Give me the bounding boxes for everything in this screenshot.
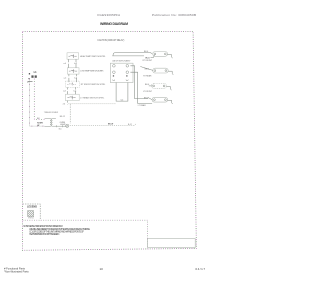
revision block at bottom right [148,239,196,248]
svg-text:HIGH TEMP SWITCH-WTRL: HIGH TEMP SWITCH-WTRL [80,56,106,58]
element E2 terminals and leads [140,67,173,75]
svg-text:BK-W: BK-W [108,123,113,125]
footer date [195,267,205,271]
svg-text:04/17: 04/17 [195,267,205,271]
label BK-6 at E1 [144,51,148,53]
connector labels a-4 b between switches [63,63,77,106]
header publication number label [152,13,196,17]
svg-text:RT FRONT SWITCH WTRL: RT FRONT SWITCH WTRL [81,84,106,86]
header model number label [98,13,121,17]
label S1 HIGH TEMP SWITCH-WTRL [80,56,106,58]
labels at E4 [138,98,149,108]
svg-text:b-4: b-4 [74,91,77,93]
svg-text:WIRING DIAGRAM: WIRING DIAGRAM [100,22,128,26]
svg-text:TRANSFORMER: TRANSFORMER [44,111,59,114]
wire label BK-12 [60,116,65,118]
legend title [27,206,37,209]
footer page number [100,267,104,271]
svg-text:BK-12: BK-12 [60,116,65,118]
element E4 terminals and leads [148,98,173,105]
legend box [23,204,41,220]
legend hatched swatch [28,211,34,217]
label S3 RT FRONT SWITCH WTRL [81,84,106,86]
wire label B-6 under transformer lead [59,128,62,130]
wire from bus down to oven light circuit [69,104,71,124]
wire dashed bus from S4 to latch block [68,103,116,105]
caution note label [97,39,124,42]
svg-text:*Non-Illustrated Parts: *Non-Illustrated Parts [4,270,29,274]
element E1 terminals and leads [151,53,173,58]
transformer T1 label [44,111,59,114]
footer functional parts note [4,266,29,273]
legend swatch caption [28,217,35,219]
latch switch assembly terminals [113,65,129,81]
vertical dashed divider to revision box [147,239,149,249]
oven light LP1 symbol [66,124,69,127]
latch terminal pins [113,75,128,76]
element E4 lt rear surface element [152,97,168,102]
latch switch assembly block [110,63,133,82]
svg-text:a-4: a-4 [64,77,67,79]
switch S2 (low temp switch) [67,68,79,74]
svg-text:CAUTION (CIRCUIT RELAY): CAUTION (CIRCUIT RELAY) [97,39,124,42]
svg-text:B-12: B-12 [128,124,132,126]
stub a below connector P1 [28,81,33,82]
dashed separator line above notes [23,220,148,238]
wire BK-12 dashed run to the right [70,123,136,125]
label S2 LOW TEMP SWITCH (SURF) [80,70,103,72]
svg-text:W-12: W-12 [145,57,149,59]
svg-text:10: 10 [100,267,104,271]
wire label at hook end [128,124,132,126]
svg-text:N BR: N BR [37,122,43,124]
element E1 rt front surface element [153,52,168,57]
element E3 lt front surface element (dashed) [151,84,166,89]
svg-text:b-4: b-4 [74,63,77,65]
wire lower run to element E1 bottom terminal [112,55,144,57]
wire box column right leg with connectors [75,59,76,94]
svg-text:RT FRONT: RT FRONT [143,60,153,62]
svg-text:Publication No: 30804050B: Publication No: 30804050B [152,13,196,17]
svg-text:LT FRONT: LT FRONT [143,91,153,93]
svg-text:BR-6: BR-6 [144,98,148,100]
svg-text:B-6: B-6 [59,128,62,130]
wire N down to transformer bottom [29,79,44,127]
label S4 LT REAR SWITCH WTRL [80,96,105,99]
labels at E2 [143,68,152,77]
svg-text:b-4: b-4 [74,77,77,79]
svg-text:BK-6: BK-6 [145,84,149,86]
svg-text:LT REAR SWITCH WTRL: LT REAR SWITCH WTRL [80,96,105,99]
svg-text:BK-6: BK-6 [145,68,149,70]
wire label BK W over dashed run [108,123,113,125]
svg-text:LT REAR: LT REAR [138,104,146,107]
wire label N BR [37,122,43,124]
switch S3 (rt front switch, dashed) [65,81,79,87]
wire L1 BK down to transformer top [34,79,44,120]
title WIRING DIAGRAM [100,22,128,26]
wire box column left leg with connectors [67,59,69,104]
node L1 label [34,70,38,74]
svg-text:WILL BE USED. REFER TO DIAGRAM: WILL BE USED. REFER TO DIAGRAM ON THE AP… [29,228,90,231]
wires below latch block [116,66,152,104]
element E2 rt rear surface element [153,68,169,73]
connector P1 (power plug) [29,73,37,79]
switch S1 (high temp switch) [67,53,79,59]
outer dashed border box [23,31,197,250]
svg-text:b-4: b-4 [121,100,124,102]
svg-text:a-4: a-4 [63,63,66,65]
svg-text:LATCH SWITCH ASSY: LATCH SWITCH ASSY [112,60,131,63]
latch switch assembly label [112,60,131,63]
svg-text:RT REAR: RT REAR [143,74,152,77]
labels at E3 [143,84,153,93]
label W-6 at E1 lower wire [145,57,148,59]
svg-text:HEAT STRIPS DROP OUT AT THE RE: HEAT STRIPS DROP OUT AT THE REGION. [29,233,60,236]
wire label BK [37,118,40,120]
labels at E1 [143,57,153,62]
svg-text:NOTE: WIRING HARNESS SHOWN FOR: NOTE: WIRING HARNESS SHOWN FOR REF. ONLY [23,225,63,228]
svg-text:BK-6: BK-6 [144,51,148,53]
oven light label [60,122,67,126]
wire upper run to element E1 top terminal [113,53,152,56]
svg-text:FGES3065PFA: FGES3065PFA [98,13,121,17]
switch S4 (lt rear switch) [65,94,79,100]
label b-4 under latch block [121,100,124,102]
transformer T1 windings [45,118,66,127]
svg-text:LOW TEMP SWITCH (SURF): LOW TEMP SWITCH (SURF) [80,70,103,72]
svg-text:LEGEND: LEGEND [27,206,37,209]
note text block [23,225,90,236]
svg-text:4 b: 4 b [63,104,66,106]
wire label W [37,125,40,127]
svg-text:SHIELD: SHIELD [28,217,35,219]
svg-text:d-4: d-4 [63,91,66,93]
element E3 terminals and leads [149,85,172,90]
